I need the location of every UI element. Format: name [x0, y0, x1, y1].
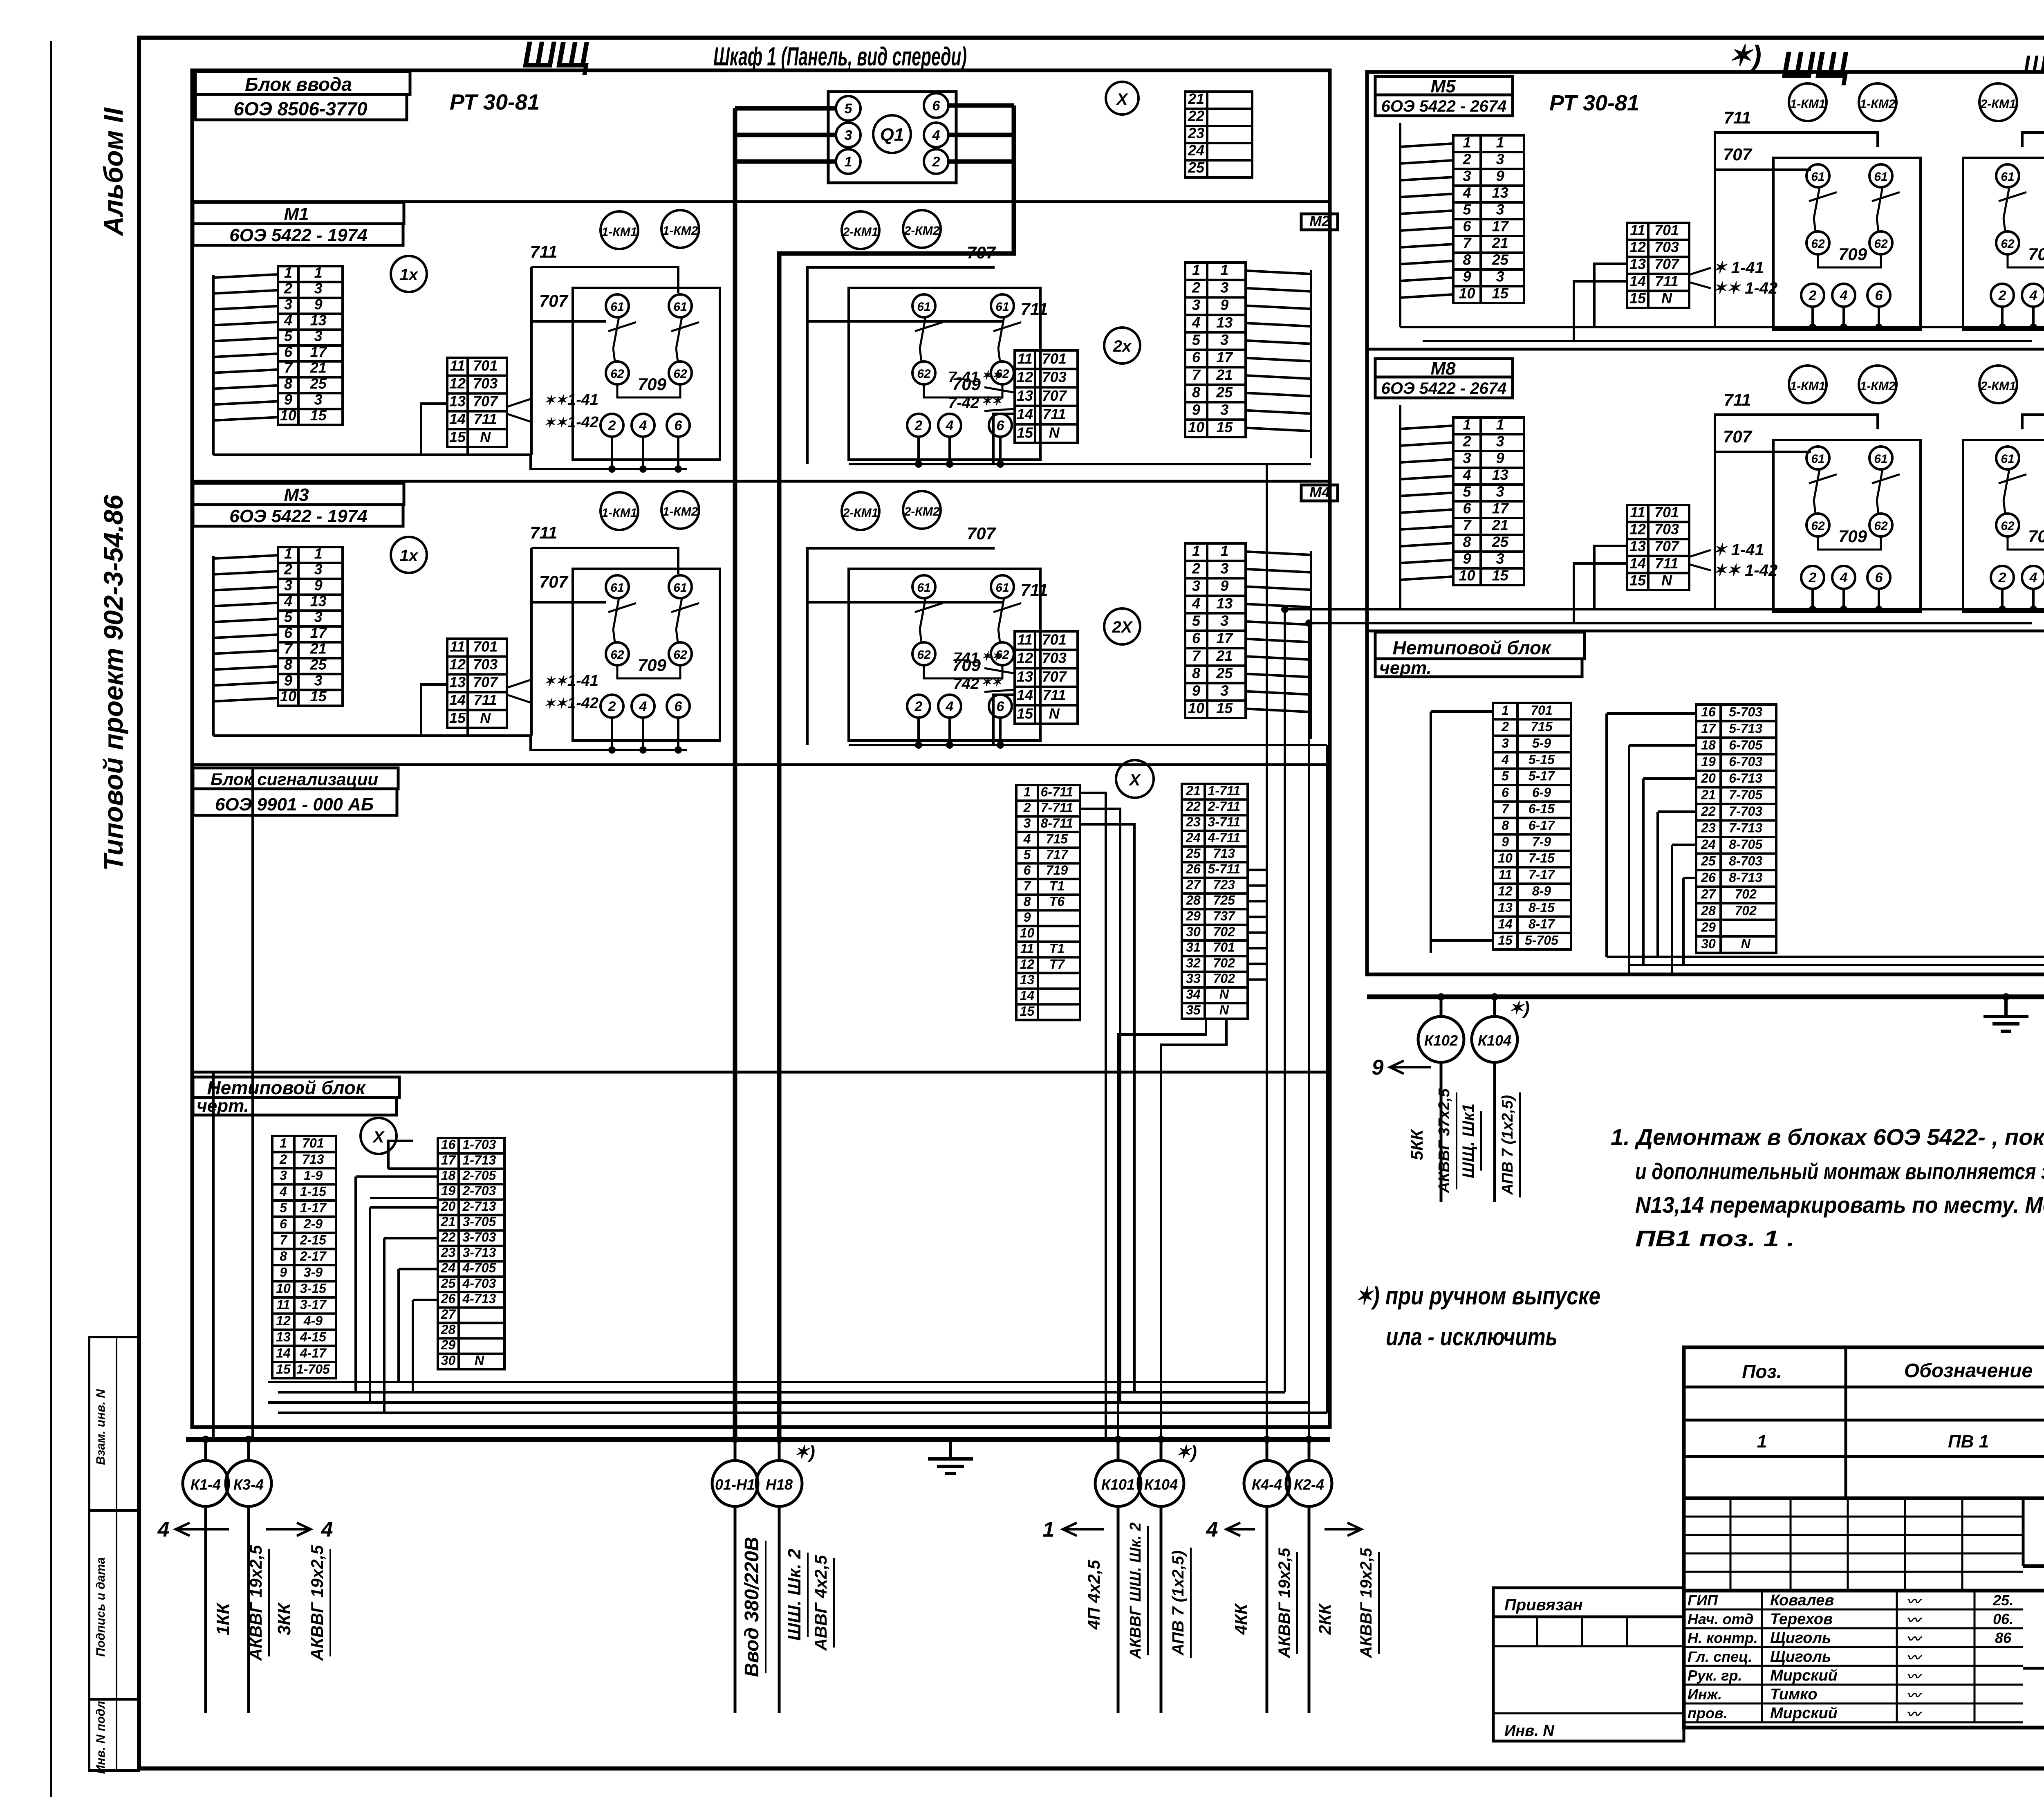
svg-text:2-КМ1: 2-КМ1 — [1980, 97, 2016, 111]
table5 left L wire — [421, 684, 447, 736]
svg-text:3: 3 — [845, 128, 852, 143]
svg-text:✶✶: ✶✶ — [981, 395, 1002, 408]
svg-text:15: 15 — [276, 1362, 291, 1376]
contact 61 — [991, 294, 1014, 317]
svg-text:21: 21 — [1216, 366, 1233, 383]
svg-text:25: 25 — [1492, 534, 1509, 550]
svg-text:2: 2 — [932, 154, 940, 170]
svg-text:М4: М4 — [1309, 484, 1330, 500]
svg-text:3: 3 — [1192, 577, 1200, 594]
contact 62 — [1996, 231, 2019, 254]
svg-text:1: 1 — [1024, 785, 1031, 799]
svg-text:Q1: Q1 — [880, 125, 904, 145]
circle X netipovoj — [361, 1118, 397, 1154]
netipovoj table 1-15 — [272, 1136, 336, 1378]
contact 61 — [669, 294, 692, 317]
svg-text:12: 12 — [1629, 239, 1646, 256]
svg-text:2: 2 — [1501, 719, 1509, 734]
svg-text:N: N — [1219, 987, 1229, 1001]
svg-text:9: 9 — [284, 672, 292, 689]
svg-text:711: 711 — [1021, 299, 1048, 319]
wire 709 link — [924, 665, 1002, 678]
terminal table rows 1-10 right — [1185, 543, 1246, 718]
svg-text:7: 7 — [1024, 878, 1032, 893]
svg-text:13: 13 — [1017, 387, 1033, 404]
svg-text:2-15: 2-15 — [300, 1232, 327, 1247]
svg-text:6: 6 — [280, 1216, 287, 1231]
svg-text:3: 3 — [1220, 613, 1228, 629]
svg-text:5: 5 — [280, 1200, 287, 1215]
svg-text:34: 34 — [1186, 987, 1201, 1001]
svg-text:АКВВГ 19х2,5: АКВВГ 19х2,5 — [1357, 1548, 1375, 1658]
svg-text:N: N — [1049, 424, 1060, 441]
svg-text:2: 2 — [1462, 151, 1471, 168]
netipovoj2 table 1-15 — [1493, 703, 1571, 949]
svg-text:25: 25 — [310, 375, 327, 392]
svg-text:25: 25 — [1186, 846, 1201, 861]
svg-text:14: 14 — [1629, 273, 1646, 289]
svg-text:13: 13 — [1629, 256, 1646, 272]
svg-text:11: 11 — [1630, 504, 1645, 521]
svg-text:30: 30 — [1701, 936, 1716, 951]
svg-text:15: 15 — [1216, 700, 1233, 716]
svg-text:Х: Х — [1116, 90, 1129, 108]
svg-text:8: 8 — [1192, 384, 1200, 401]
svg-text:5-711: 5-711 — [1208, 862, 1240, 876]
cable circle К104 — [1493, 997, 1496, 1017]
svg-text:8-15: 8-15 — [1529, 900, 1555, 915]
svg-text:2: 2 — [1192, 279, 1200, 296]
svg-text:7: 7 — [1192, 366, 1201, 383]
svg-text:30: 30 — [1186, 924, 1201, 939]
svg-text:711: 711 — [1042, 406, 1066, 422]
svg-text:61: 61 — [610, 581, 624, 595]
svg-text:12: 12 — [1020, 957, 1035, 972]
terminal table rows 11-15 — [1015, 631, 1078, 724]
svg-text:Терехов: Терехов — [1770, 1611, 1833, 1628]
svg-text:707: 707 — [1723, 427, 1753, 446]
terminal table М8 1-10 — [1453, 417, 1524, 585]
svg-text:14: 14 — [1629, 555, 1646, 572]
svg-text:Х: Х — [372, 1128, 385, 1146]
svg-text:1х: 1х — [400, 266, 419, 284]
svg-text:28: 28 — [441, 1322, 456, 1337]
multiplier circle 2x — [1104, 328, 1140, 364]
svg-text:1: 1 — [1463, 134, 1471, 151]
contact 62 — [1996, 514, 2019, 536]
svg-text:1КК: 1КК — [213, 1602, 233, 1636]
svg-text:9: 9 — [284, 391, 292, 408]
svg-text:4: 4 — [157, 1518, 170, 1542]
svg-text:709: 709 — [2028, 245, 2044, 264]
svg-text:6: 6 — [1463, 500, 1471, 517]
svg-text:3: 3 — [1496, 550, 1504, 567]
contact 62 — [606, 642, 629, 665]
svg-text:1-15: 1-15 — [300, 1184, 327, 1199]
svg-text:15: 15 — [1020, 1004, 1035, 1019]
svg-text:АВВГ 4х2,5: АВВГ 4х2,5 — [811, 1555, 830, 1651]
wire 709 link — [1818, 536, 1881, 550]
svg-text:35: 35 — [1186, 1003, 1201, 1017]
wire 709 link — [2008, 254, 2044, 267]
trunk wire A — [733, 108, 737, 1439]
svg-text:17: 17 — [1216, 349, 1233, 366]
svg-text:3: 3 — [314, 672, 323, 689]
svg-text:3: 3 — [284, 577, 292, 594]
svg-text:11: 11 — [450, 638, 465, 655]
contact 61 — [991, 575, 1014, 598]
netipovoj2 left stubs — [1430, 711, 1432, 953]
svg-text:711: 711 — [530, 242, 558, 261]
table5 L wires cab2 — [1594, 546, 1627, 609]
svg-text:4: 4 — [639, 699, 647, 714]
spare circle X — [1106, 82, 1139, 114]
svg-text:К104: К104 — [1144, 1476, 1178, 1493]
svg-text:14: 14 — [1017, 687, 1033, 703]
signal table to K101 K104 wires — [1118, 1019, 1206, 1439]
svg-text:Тимко: Тимко — [1770, 1686, 1818, 1703]
svg-text:16: 16 — [441, 1137, 456, 1152]
contact 62 — [669, 361, 692, 384]
svg-text:✶ 1-41: ✶ 1-41 — [1713, 259, 1764, 277]
svg-text:11: 11 — [1020, 941, 1034, 956]
svg-text:707: 707 — [1042, 387, 1067, 404]
svg-text:19: 19 — [1701, 754, 1716, 769]
svg-text:23: 23 — [1188, 125, 1204, 141]
svg-text:10: 10 — [1020, 925, 1035, 940]
svg-text:2: 2 — [284, 561, 292, 578]
svg-text:3-713: 3-713 — [462, 1245, 496, 1260]
contact 61 — [669, 575, 692, 598]
KM circles right pair — [1979, 83, 2017, 121]
svg-text:61: 61 — [1811, 452, 1824, 466]
band divider netipovoj — [192, 1071, 1330, 1074]
svg-text:13: 13 — [1492, 467, 1508, 483]
svg-text:3: 3 — [314, 391, 323, 408]
KM circles left pair — [1789, 83, 1827, 121]
stub wires right — [1310, 270, 1312, 458]
svg-text:11: 11 — [1498, 867, 1512, 882]
svg-text:АКВВГ 19х2,5: АКВВГ 19х2,5 — [307, 1545, 327, 1661]
sheet fold line left — [50, 41, 52, 1797]
bottom wire of group — [213, 736, 687, 750]
svg-text:86: 86 — [1995, 1629, 2012, 1646]
svg-text:АПВ 7 (1х2,5): АПВ 7 (1х2,5) — [1499, 1095, 1516, 1195]
terminals 2 4 6 — [1991, 566, 2014, 589]
signal right table stubs — [1248, 869, 1266, 871]
svg-text:13: 13 — [310, 312, 327, 328]
terminals 2 4 6 — [907, 695, 930, 718]
svg-text:Х: Х — [1129, 771, 1141, 789]
svg-text:22: 22 — [1701, 804, 1716, 819]
svg-text:Щиголь: Щиголь — [1770, 1629, 1831, 1647]
svg-text:3: 3 — [314, 280, 323, 297]
svg-text:3: 3 — [1220, 560, 1228, 577]
svg-text:6: 6 — [1875, 570, 1883, 586]
svg-text:4-15: 4-15 — [300, 1329, 327, 1344]
terminals 2 4 6 — [1801, 566, 1824, 589]
svg-text:6-17: 6-17 — [1529, 818, 1555, 833]
svg-text:2: 2 — [1809, 288, 1817, 303]
svg-text:✶): ✶) — [794, 1442, 815, 1462]
svg-text:3: 3 — [1463, 168, 1471, 184]
svg-text:8-711: 8-711 — [1041, 816, 1073, 830]
svg-text:702: 702 — [1213, 956, 1235, 970]
svg-text:1: 1 — [845, 154, 852, 170]
svg-text:Т1: Т1 — [1049, 878, 1065, 893]
svg-text:742: 742 — [953, 675, 979, 693]
svg-text:9: 9 — [1496, 168, 1504, 184]
terminal table 11-15 left — [1627, 505, 1689, 590]
svg-text:N: N — [1741, 936, 1751, 951]
svg-text:5: 5 — [284, 328, 293, 344]
svg-text:707: 707 — [1723, 145, 1753, 164]
svg-text:61: 61 — [2001, 452, 2014, 466]
cable circle К104 — [1160, 1439, 1163, 1461]
svg-text:711: 711 — [473, 411, 497, 427]
cable circle К3-4 — [247, 1439, 250, 1461]
svg-text:6ОЭ 8506-3770: 6ОЭ 8506-3770 — [233, 98, 368, 119]
svg-text:3: 3 — [1502, 736, 1509, 750]
contact 61 — [1806, 447, 1829, 469]
svg-text:2: 2 — [1023, 800, 1031, 815]
svg-text:4-713: 4-713 — [462, 1291, 496, 1306]
bottom wire of group — [213, 455, 687, 469]
svg-text:Гл. спец.: Гл. спец. — [1688, 1648, 1752, 1665]
svg-text:4: 4 — [279, 1184, 287, 1199]
terminal table rows 1-10 right — [1185, 263, 1246, 437]
svg-text:Нетиповой блок: Нетиповой блок — [1393, 637, 1552, 658]
svg-text:701: 701 — [473, 357, 498, 374]
KM circles right pair — [1979, 366, 2017, 403]
svg-text:К2-4: К2-4 — [1294, 1476, 1324, 1493]
svg-text:61: 61 — [1874, 170, 1887, 184]
svg-text:12: 12 — [449, 656, 466, 673]
svg-text:3: 3 — [1496, 201, 1504, 218]
svg-text:61: 61 — [673, 300, 687, 314]
svg-text:6: 6 — [1024, 863, 1031, 877]
contactor right — [1963, 440, 2044, 612]
svg-text:01-Н1: 01-Н1 — [715, 1476, 755, 1493]
svg-text:7-703: 7-703 — [1729, 804, 1762, 819]
label Блок ввода — [195, 72, 410, 94]
svg-text:62: 62 — [2001, 519, 2015, 533]
svg-text:703: 703 — [1654, 239, 1679, 256]
svg-text:РТ 30-81: РТ 30-81 — [450, 90, 540, 114]
svg-text:2-713: 2-713 — [462, 1199, 496, 1214]
svg-text:15: 15 — [1492, 567, 1509, 584]
cable circle К101 — [1117, 1439, 1120, 1461]
svg-text:1-КМ1: 1-КМ1 — [1790, 379, 1826, 393]
svg-text:2: 2 — [914, 418, 923, 433]
svg-text:Нач. отд: Нач. отд — [1688, 1611, 1753, 1627]
svg-text:11: 11 — [450, 357, 465, 374]
svg-text:20: 20 — [1701, 771, 1716, 785]
svg-text:32: 32 — [1186, 956, 1201, 970]
svg-text:✶ 1-41: ✶ 1-41 — [1713, 541, 1764, 559]
svg-text:4-9: 4-9 — [303, 1313, 323, 1328]
svg-text:61: 61 — [917, 300, 930, 314]
svg-text:3-711: 3-711 — [1208, 815, 1240, 829]
terminal table М3 rows 11-15 — [447, 639, 507, 728]
title block outer — [1684, 1347, 2044, 1728]
wire 709 link — [617, 665, 680, 678]
svg-text:10: 10 — [280, 688, 296, 705]
svg-text:7: 7 — [284, 640, 293, 657]
svg-text:14: 14 — [1020, 988, 1035, 1003]
svg-text:23: 23 — [441, 1245, 456, 1260]
svg-text:62: 62 — [2001, 237, 2015, 251]
svg-text:7: 7 — [1463, 235, 1472, 251]
svg-text:К101: К101 — [1101, 1476, 1135, 1493]
svg-text:8-705: 8-705 — [1729, 837, 1763, 852]
terminal table 11-15 left — [1627, 223, 1689, 308]
svg-text:707: 707 — [1654, 256, 1680, 272]
svg-text:711: 711 — [1655, 273, 1678, 289]
svg-text:1: 1 — [314, 545, 323, 562]
cable circle К1-4 — [204, 1439, 207, 1461]
svg-text:62: 62 — [610, 367, 624, 381]
svg-text:✶): ✶) — [1176, 1442, 1197, 1462]
trunk wires down netipovoj — [212, 1072, 215, 1439]
terminals 2 4 6 — [1801, 284, 1824, 307]
svg-text:701: 701 — [1654, 222, 1679, 238]
svg-text:12: 12 — [276, 1313, 291, 1328]
svg-text:6: 6 — [997, 418, 1005, 433]
svg-text:62: 62 — [673, 648, 687, 662]
svg-text:8-17: 8-17 — [1529, 917, 1555, 931]
svg-text:2: 2 — [279, 1152, 287, 1167]
svg-text:9: 9 — [1372, 1056, 1384, 1079]
svg-text:25: 25 — [1216, 665, 1233, 682]
svg-text:1-703: 1-703 — [462, 1137, 496, 1152]
bottom wires — [1400, 608, 2044, 610]
svg-text:2-КМ2: 2-КМ2 — [904, 505, 940, 518]
svg-text:62: 62 — [1874, 237, 1888, 251]
section arrows — [176, 1528, 229, 1530]
svg-text:17: 17 — [441, 1153, 457, 1167]
svg-text:703: 703 — [473, 656, 498, 673]
svg-text:15: 15 — [1629, 572, 1646, 588]
wire 709 link — [924, 384, 1002, 397]
svg-text:N: N — [1661, 572, 1672, 588]
svg-text:9: 9 — [1463, 268, 1471, 285]
svg-text:3: 3 — [1496, 433, 1504, 450]
ground symbol — [949, 1439, 952, 1458]
terminal drop wires — [611, 437, 613, 469]
svg-text:33: 33 — [1186, 971, 1201, 986]
contact 61 — [606, 294, 629, 317]
svg-text:3: 3 — [1192, 296, 1200, 313]
svg-text:15: 15 — [310, 688, 327, 705]
svg-text:2-705: 2-705 — [462, 1168, 496, 1183]
svg-text:Шкаф 2 (Панель, вид спереди): Шкаф 2 (Панель, вид спереди) — [2024, 50, 2044, 79]
svg-text:3КК: 3КК — [274, 1602, 294, 1636]
svg-text:15: 15 — [1216, 419, 1233, 435]
terminals 2 4 6 — [601, 695, 623, 718]
svg-text:8: 8 — [284, 656, 292, 673]
svg-text:10: 10 — [276, 1281, 291, 1296]
svg-text:13: 13 — [1020, 972, 1035, 987]
svg-text:8: 8 — [1024, 894, 1031, 909]
svg-text:6: 6 — [1463, 218, 1471, 235]
svg-text:3-9: 3-9 — [304, 1265, 323, 1279]
svg-text:6: 6 — [675, 699, 683, 714]
svg-text:8: 8 — [1192, 665, 1200, 682]
svg-text:24: 24 — [1701, 837, 1716, 852]
svg-text:ШШ. Шк. 2: ШШ. Шк. 2 — [784, 1548, 805, 1640]
svg-text:ГИП: ГИП — [1688, 1592, 1718, 1609]
contact 62 — [1869, 514, 1892, 536]
svg-text:15: 15 — [1017, 705, 1033, 722]
svg-text:21: 21 — [1216, 647, 1233, 664]
svg-text:4-711: 4-711 — [1208, 830, 1240, 845]
svg-text:5: 5 — [284, 608, 293, 625]
contactor group М1 — [573, 288, 720, 460]
svg-text:9: 9 — [1192, 401, 1200, 418]
svg-text:4: 4 — [284, 592, 292, 609]
svg-text:5: 5 — [1463, 483, 1471, 500]
svg-text:27: 27 — [441, 1307, 457, 1322]
svg-text:✶): ✶) — [1728, 40, 1762, 72]
terminal drops — [1811, 307, 1814, 327]
terminal table М1 rows 11-15 — [447, 358, 507, 447]
svg-text:8-703: 8-703 — [1729, 854, 1762, 868]
svg-text:26: 26 — [1186, 862, 1201, 876]
svg-text:15: 15 — [1492, 285, 1509, 302]
svg-text:702: 702 — [1213, 924, 1235, 939]
svg-text:21: 21 — [1492, 235, 1508, 251]
svg-text:1-КМ2: 1-КМ2 — [1860, 97, 1896, 111]
wire 709 link — [2008, 536, 2044, 550]
svg-text:9: 9 — [1024, 910, 1031, 925]
svg-text:10: 10 — [1459, 567, 1475, 584]
svg-text:6-713: 6-713 — [1729, 771, 1762, 785]
svg-text:✶): ✶) — [1508, 998, 1530, 1018]
svg-text:ШЩ: ШЩ — [1782, 44, 1849, 86]
svg-text:✶✶: ✶✶ — [981, 675, 1002, 689]
cabinet 2 box — [1367, 72, 2044, 974]
contactor right — [1963, 158, 2044, 330]
contact 62 — [912, 361, 935, 384]
svg-text:29: 29 — [1186, 909, 1201, 923]
KM circles left pair — [1789, 366, 1827, 403]
label M2 — [1301, 214, 1338, 230]
KM label circles — [842, 492, 879, 530]
svg-text:4: 4 — [1206, 1518, 1218, 1542]
svg-text:6ОЭ 5422 - 2674: 6ОЭ 5422 - 2674 — [1381, 97, 1507, 115]
terminal table 21-25 — [1185, 92, 1252, 177]
svg-text:709: 709 — [2028, 527, 2044, 546]
svg-text:11: 11 — [1630, 222, 1645, 238]
svg-text:18: 18 — [1701, 738, 1716, 752]
svg-text:702: 702 — [1735, 887, 1757, 902]
svg-text:26: 26 — [441, 1291, 456, 1306]
svg-text:1: 1 — [284, 264, 292, 281]
svg-text:6-705: 6-705 — [1729, 738, 1763, 752]
contactor group right — [849, 569, 1040, 741]
svg-text:711: 711 — [1724, 390, 1751, 409]
svg-text:7-17: 7-17 — [1529, 867, 1555, 882]
svg-text:713: 713 — [302, 1152, 324, 1167]
contact 62 — [669, 642, 692, 665]
svg-text:6: 6 — [675, 418, 683, 433]
riser top links — [1267, 463, 1311, 465]
svg-text:702: 702 — [1213, 971, 1235, 986]
svg-text:21: 21 — [1492, 517, 1508, 534]
svg-text:12: 12 — [449, 375, 466, 392]
svg-text:25: 25 — [441, 1276, 456, 1290]
